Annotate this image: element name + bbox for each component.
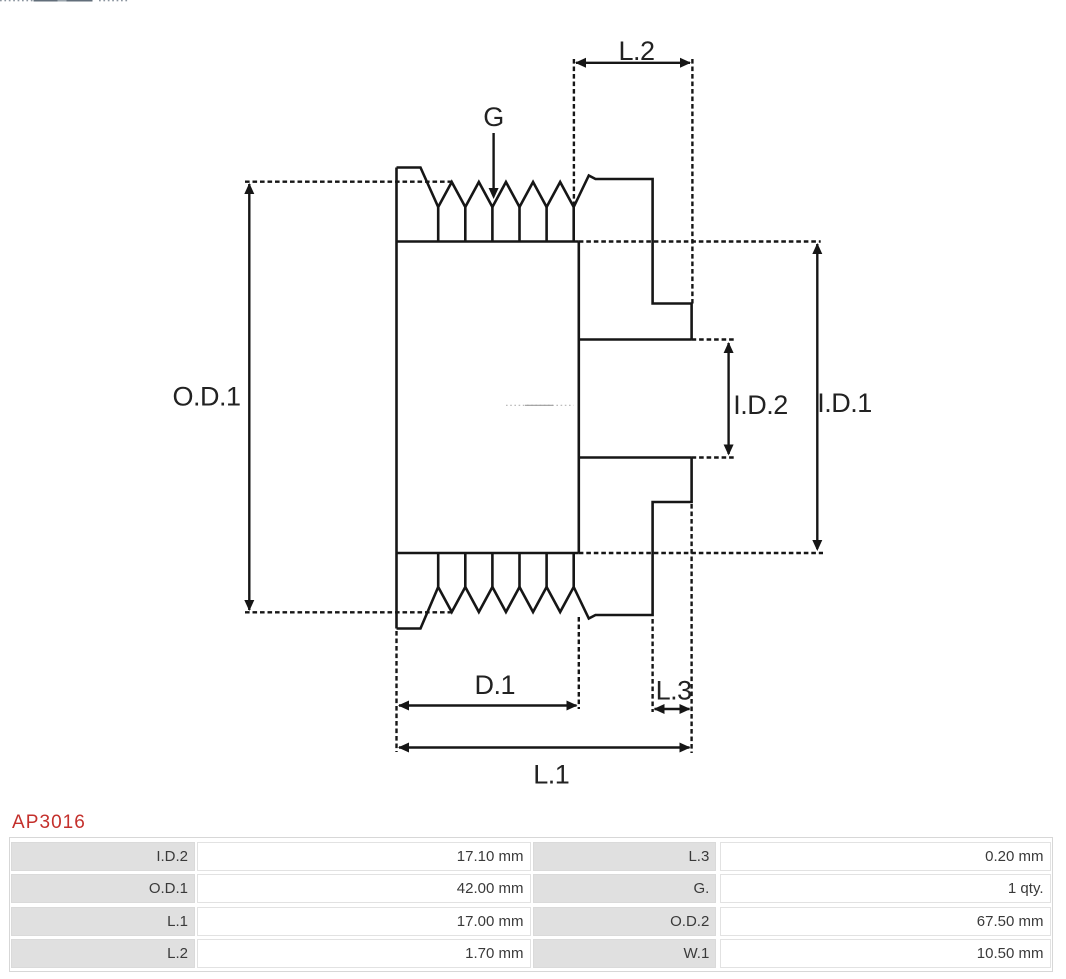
right flange bottom profile	[574, 458, 692, 619]
specification table	[9, 837, 1053, 972]
bottom belt groove zigzag	[438, 587, 574, 612]
L.3 dimension arrow	[654, 704, 691, 714]
bore bottom line	[579, 456, 692, 459]
bottom flange edge	[397, 587, 439, 629]
svg-text:L.2: L.2	[618, 36, 654, 66]
L.1 D.1 left extension line	[395, 631, 397, 752]
svg-text:O.D.1: O.D.1	[172, 382, 240, 412]
table row 4	[11, 939, 195, 968]
faint centerline watermark	[506, 404, 574, 406]
table row 2	[11, 874, 195, 903]
table row 3	[11, 907, 195, 936]
cropped logo sliver top-left	[0, 0, 140, 4]
O.D.1 bottom extension line	[245, 611, 452, 613]
L.2 right extension line	[691, 59, 693, 304]
L.1 L.3 right extension line	[690, 504, 692, 753]
top hub line	[397, 240, 579, 243]
L.1 dimension arrow	[398, 743, 691, 753]
svg-text:I.D.2: I.D.2	[733, 390, 788, 420]
D.1 dimension arrow	[398, 701, 578, 711]
svg-text:L.3: L.3	[656, 676, 692, 706]
bore top line	[579, 338, 692, 341]
top groove root verticals	[438, 207, 574, 242]
L.2 left extension line	[573, 59, 575, 207]
table row 1	[11, 842, 195, 871]
I.D.2 top extension line	[692, 338, 734, 340]
pulley left edge	[395, 168, 398, 629]
right flange top profile	[574, 176, 692, 340]
I.D.1 bottom extension line	[579, 552, 823, 554]
svg-text:D.1: D.1	[475, 670, 516, 700]
svg-text:G: G	[483, 102, 504, 132]
top belt groove zigzag	[438, 182, 574, 207]
O.D.1 dimension arrow	[244, 183, 254, 611]
I.D.1 top extension line	[579, 240, 821, 242]
L.2 dimension arrow	[575, 58, 691, 68]
I.D.1 dimension arrow	[812, 243, 822, 551]
part number AP3016	[12, 812, 86, 834]
D.1 right extension line	[578, 617, 580, 709]
G leader arrow	[489, 133, 499, 199]
svg-text:L.1: L.1	[533, 760, 569, 790]
svg-text:I.D.1: I.D.1	[817, 388, 872, 418]
body right edge	[577, 242, 580, 554]
bottom hub line	[397, 552, 579, 555]
top flange edge	[397, 168, 439, 208]
bottom groove root verticals	[438, 553, 574, 587]
L.3 left extension line	[651, 619, 653, 712]
I.D.2 dimension arrow	[724, 342, 734, 456]
I.D.2 bottom extension line	[692, 456, 734, 458]
O.D.1 top extension line	[245, 180, 452, 182]
